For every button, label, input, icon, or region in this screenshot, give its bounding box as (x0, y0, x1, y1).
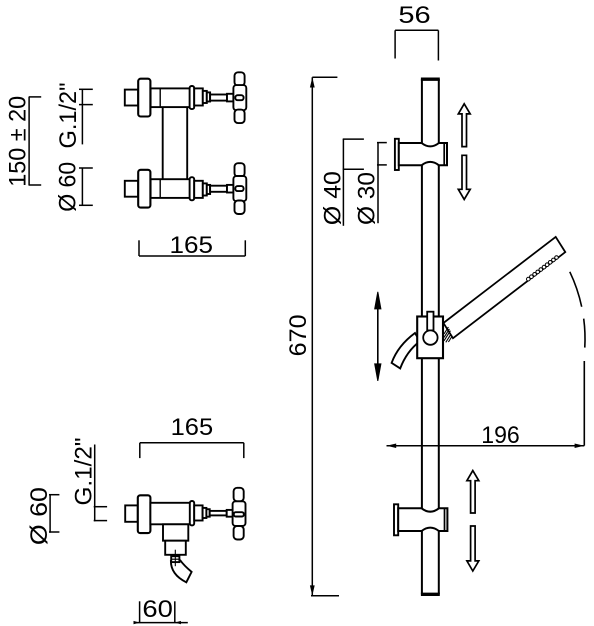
dim 196 (387, 445, 585, 447)
svg-text:Ø 60: Ø 60 (26, 487, 53, 545)
top outline arrow up (458, 104, 470, 147)
upper valve stem step 2 (203, 91, 207, 103)
rail segment top (421, 79, 423, 143)
lower valve rod cap (227, 185, 233, 193)
svg-text:Ø 30: Ø 30 (354, 172, 381, 225)
dim 670 arrows (310, 77, 315, 87)
dimensions of bottom-left valve (49, 443, 244, 623)
rail segment mid2 (421, 358, 423, 508)
top bracket end line (443, 143, 445, 165)
side valve stem step 3 (206, 509, 209, 517)
dim 60 bottom (134, 622, 188, 624)
svg-text:Ø 60: Ø 60 (54, 162, 81, 212)
dim 56 (395, 30, 438, 60)
side valve spindle rod (210, 511, 227, 516)
side valve handle top spoke (234, 488, 244, 502)
upper valve body inner line (159, 88, 161, 107)
hose nut (171, 556, 179, 562)
svg-text:60: 60 (142, 596, 173, 623)
svg-text:150 ± 20: 150 ± 20 (5, 96, 32, 187)
lower valve handle hub (233, 176, 246, 201)
svg-text:G.1/2": G.1/2" (71, 438, 98, 506)
rail bottom cap (421, 593, 440, 596)
upper valve handle hub slot (235, 95, 243, 100)
swing arc (dashed) (570, 272, 585, 352)
dim dia 30 (377, 142, 387, 223)
dim G.1/2 lower (94, 445, 96, 522)
lower valve spindle rod (210, 186, 227, 192)
svg-text:G.1/2": G.1/2" (55, 83, 82, 149)
bottom bracket flange (394, 504, 398, 535)
bottom bracket cylinder (398, 508, 447, 531)
side valve wall flange (138, 495, 151, 533)
slider lever tab (427, 312, 433, 331)
clamp hatch (444, 327, 452, 342)
hand shower tube (443, 237, 565, 338)
arc extension line (583, 361, 585, 446)
dim dia 40 (343, 139, 364, 226)
upper valve bonnet flange (190, 86, 195, 109)
upper valve inlet stub (125, 90, 138, 106)
dimensions of top-left mixer (29, 89, 246, 256)
connecting bar right edge (186, 107, 188, 179)
lower valve inlet stub (125, 181, 138, 197)
hose centerline (174, 550, 176, 567)
side valve handle hub (233, 501, 246, 526)
svg-text:165: 165 (171, 414, 214, 441)
side valve stem step 2 (203, 508, 207, 518)
lower valve handle hub slot (235, 186, 243, 191)
lower valve body inner line (159, 179, 161, 198)
lower valve handle top spoke (235, 163, 245, 177)
bottom outline arrow up (467, 471, 479, 513)
lower valve body (151, 179, 191, 198)
rail segment mid1 (421, 165, 423, 316)
lower valve stem step 2 (203, 183, 207, 195)
spray nozzles (527, 256, 559, 281)
svg-text:165: 165 (170, 232, 214, 259)
top bracket cylinder (399, 143, 447, 165)
side valve body (150, 503, 190, 525)
upper valve handle top spoke (235, 72, 245, 86)
svg-text:670: 670 (285, 314, 312, 356)
bottom outline arrow down (467, 526, 479, 571)
top bracket flange (395, 139, 399, 170)
svg-text:56: 56 (398, 2, 430, 29)
top outline arrow down (458, 155, 470, 199)
dim dia 60 upper line (81, 168, 83, 206)
upper valve handle bottom spoke (235, 110, 245, 124)
dim G.1/2 upper line (81, 89, 83, 144)
side valve diverter box (163, 524, 188, 540)
svg-text:196: 196 (481, 422, 520, 449)
side valve lower box (165, 541, 186, 555)
dim 150 +/- 20 line (28, 97, 30, 185)
side valve bonnet flange (190, 501, 194, 525)
lower valve wall flange (138, 170, 150, 208)
upper valve rod cap (227, 94, 233, 102)
side valve inlet stub (125, 505, 138, 521)
slider block (417, 317, 443, 359)
upper valve stem step 3 (207, 92, 210, 101)
hose nut inner line (171, 558, 179, 560)
side valve handle hub slot (234, 512, 244, 516)
lower valve handle bottom spoke (235, 201, 245, 215)
shower hose at slider (392, 333, 420, 368)
upper valve handle hub (233, 85, 246, 110)
dim 165 top fixture (139, 255, 245, 257)
side valve stem step 1 (194, 505, 202, 520)
bottom bracket end line (444, 508, 446, 531)
lower valve bonnet flange (190, 177, 195, 200)
dim 165 bottom fixture (140, 442, 244, 444)
lower valve stem step 1 (194, 181, 203, 198)
slide travel arrow (filled) (375, 292, 381, 381)
side valve rod cap (227, 510, 233, 517)
rail top cap (421, 77, 440, 80)
side valve handle bottom spoke (234, 526, 244, 540)
upper valve stem step 1 (194, 88, 203, 105)
upper valve wall flange (138, 79, 150, 117)
dim dia 60 lower (49, 494, 51, 532)
upper valve body (151, 88, 191, 107)
slider knob (423, 330, 437, 344)
dim 60 arrows (134, 621, 140, 624)
lower valve stem step 3 (207, 185, 210, 194)
outlet hose curve (171, 561, 192, 583)
connecting bar left edge (162, 107, 164, 179)
dim 670 (311, 77, 339, 596)
rail segment bottom (421, 531, 423, 594)
svg-text:Ø 40: Ø 40 (319, 171, 346, 225)
upper valve spindle rod (210, 95, 227, 101)
